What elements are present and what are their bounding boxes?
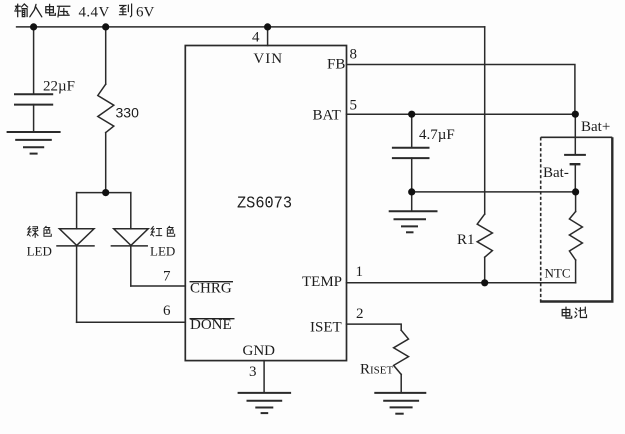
svg-text:TEMP: TEMP	[302, 274, 342, 290]
svg-text:8: 8	[350, 47, 358, 63]
svg-text:4.4V: 4.4V	[79, 4, 110, 20]
svg-text:6V: 6V	[136, 4, 155, 20]
svg-text:ISET: ISET	[310, 320, 342, 336]
svg-text:VIN: VIN	[253, 51, 283, 67]
svg-text:BAT: BAT	[313, 107, 341, 123]
svg-text:6: 6	[163, 303, 171, 319]
svg-text:LED: LED	[27, 244, 52, 259]
svg-text:LED: LED	[150, 244, 175, 259]
svg-text:CHRG: CHRG	[190, 280, 232, 296]
svg-text:Bat-: Bat-	[543, 165, 569, 181]
svg-text:22µF: 22µF	[43, 79, 75, 95]
svg-text:1: 1	[356, 264, 364, 280]
svg-text:5: 5	[350, 97, 358, 113]
svg-text:2: 2	[356, 306, 364, 322]
svg-text:7: 7	[163, 269, 171, 285]
svg-text:4.7µF: 4.7µF	[419, 127, 455, 143]
svg-text:330: 330	[116, 105, 140, 121]
svg-text:3: 3	[249, 364, 257, 380]
svg-text:R1: R1	[457, 232, 475, 248]
svg-text:RISET: RISET	[360, 362, 394, 378]
svg-text:ZS6073: ZS6073	[237, 195, 292, 214]
svg-text:NTC: NTC	[545, 266, 571, 281]
svg-text:GND: GND	[243, 343, 276, 359]
svg-text:FB: FB	[327, 57, 345, 73]
svg-text:Bat+: Bat+	[581, 119, 610, 135]
svg-text:4: 4	[252, 30, 260, 46]
